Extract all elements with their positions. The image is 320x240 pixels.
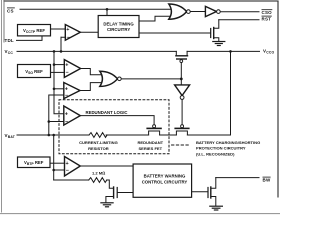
transistor Q6 gate bar [207, 188, 209, 198]
transistor Q6 channel bar [210, 187, 212, 198]
op-amp U4 comparator [64, 83, 80, 99]
dashed box redundant logic [59, 100, 169, 154]
transistor Q1 source stub to ground [214, 38, 219, 42]
wire G2 output to node N1 [121, 78, 181, 80]
wire U7 output to battery warning box [80, 165, 133, 167]
wire VBAT line [17, 134, 89, 136]
svg-text:−: − [67, 35, 70, 41]
wire VBAT feed vertical VB to U4 minus and U5 minus [49, 95, 64, 135]
svg-text:DELAY TIMING: DELAY TIMING [103, 22, 134, 27]
wire BW output line [216, 177, 259, 179]
svg-text:+: + [65, 112, 68, 118]
wire between Q3 and Q4 [160, 134, 177, 136]
svg-text:RESISTOR: RESISTOR [88, 146, 109, 151]
wire VBAT line after R1 [106, 134, 149, 136]
svg-text:SERIES FET: SERIES FET [138, 146, 162, 151]
transistor Q5 gate bar [116, 188, 118, 198]
transistor Q3 gate bar [147, 127, 161, 129]
ground G1 symbol [213, 41, 225, 43]
wire U4 output to NOR G2 lower input [80, 83, 102, 91]
transistor Q3 gate bubble [153, 125, 156, 128]
wire battery warning box to Q6 gate [192, 191, 208, 193]
node dot VBAT/VC [52, 134, 55, 137]
gate G2 NOR [100, 71, 118, 86]
svg-text:BATTERY WARNING: BATTERY WARNING [144, 174, 186, 179]
node dot VCC/U1minus [60, 50, 63, 53]
wire VC stub to U7 minus [54, 169, 65, 171]
wire inverter U6 output to Q4 gate [181, 100, 183, 125]
svg-text:+: + [66, 161, 69, 167]
pin label CS [7, 8, 15, 13]
wire VSO REF to U3 minus [51, 71, 65, 73]
wire delay box to NOR G1 lower input [139, 16, 171, 21]
node CS junction to delay box [106, 9, 108, 15]
wire VA stub to U3 plus [54, 64, 64, 66]
svg-text:−: − [66, 70, 69, 76]
svg-text:BW: BW [263, 177, 271, 182]
wire Q5 gate to battery warning box [118, 192, 134, 194]
op-amp U5 comparator [64, 106, 81, 125]
svg-text:(U.L. RECOGNIZED): (U.L. RECOGNIZED) [196, 151, 235, 156]
ground G2 symbol [101, 202, 113, 204]
wire Q2 gate down to node N1 [180, 63, 182, 79]
svg-text:CS: CS [7, 8, 14, 13]
node dot VC/U7minus [52, 169, 55, 172]
node dot VBAT/VB [48, 134, 51, 137]
transistor Q2 channel bar [176, 55, 188, 57]
wire CS input line [20, 8, 171, 10]
wire R2 to Q5 top stub [107, 180, 113, 188]
node N1 junction dot [180, 78, 183, 81]
pin label BW [263, 177, 271, 182]
wire U1 minus from VCC rail [61, 37, 65, 51]
resistor R2 1.2 Mohm zigzag [89, 178, 107, 183]
op-amp U3 comparator [64, 60, 80, 78]
border frame bottom [0, 213, 280, 215]
border frame top [4, 0, 278, 2]
transistor Q1 (RST pulldown) gate bar [210, 29, 212, 38]
pin label RST [262, 16, 272, 21]
svg-text:REDUNDANT: REDUNDANT [137, 140, 163, 145]
node dot CS/delay [106, 8, 109, 11]
node dot VA/U4plus [53, 88, 56, 91]
box VSO REF [18, 65, 51, 78]
pin label CSO [262, 10, 273, 15]
op-amp U1 comparator [65, 25, 80, 41]
transistor Q6 drain stub to BW line [211, 178, 216, 189]
transistor Q4 protection FET hump [176, 131, 187, 135]
box VBTP REF [18, 157, 51, 168]
resistor R1 current-limiting zigzag [89, 133, 107, 138]
svg-text:CURRENT-LIMITING: CURRENT-LIMITING [79, 140, 118, 145]
ground G3 symbol [210, 205, 223, 207]
wire N1 down to inverter U6 [180, 79, 182, 85]
transistor Q2 gate bubble [180, 60, 183, 63]
wire VCC to comparator feeds vertical VA [54, 51, 64, 113]
box VCCTP REF [18, 25, 51, 36]
wire U1 output to delay box [80, 31, 98, 33]
node dot VA/U3plus [53, 63, 56, 66]
transistor Q6 source stub to ground [211, 197, 216, 206]
svg-text:PROTECTION CIRCUITRY: PROTECTION CIRCUITRY [196, 146, 246, 151]
wire VBAT line to VCCO riser [187, 51, 230, 135]
inverter U2 [205, 6, 216, 16]
transistor Q3 redundant series FET hump [149, 131, 160, 135]
svg-text:−: − [66, 168, 69, 174]
svg-text:REDUNDANT LOGIC: REDUNDANT LOGIC [85, 110, 127, 115]
node dot VCC/VCCO riser [229, 50, 232, 53]
node dot VB/U5minus [48, 120, 51, 123]
wire Q5 source stub to ground [106, 197, 113, 203]
transistor Q2 pass FET drain/source drops [176, 51, 187, 55]
transistor Q2 gate bar [177, 58, 187, 60]
wire VBAT to comp5/resistor vertical VC [53, 135, 55, 180]
border frame right [277, 1, 279, 197]
svg-text:−: − [65, 93, 68, 99]
wire U2 output to CSO pad [220, 11, 259, 13]
wire U5 output to Q3 gate [80, 116, 154, 125]
svg-text:1.2 MΩ: 1.2 MΩ [92, 171, 105, 176]
svg-text:CIRCUITRY: CIRCUITRY [107, 27, 130, 32]
box battery warning control circuitry [133, 164, 192, 197]
transistor Q1 drain stub to RST line [214, 20, 219, 28]
wire RST output line [219, 19, 259, 21]
wire G1 output to inverter U2 [190, 11, 205, 13]
svg-text:+: + [65, 62, 68, 68]
svg-text:BATTERY CHARGING/SHORTING: BATTERY CHARGING/SHORTING [196, 140, 260, 145]
border frame left [1, 0, 3, 212]
wire delay box to Q1 gate [139, 32, 210, 34]
svg-text:−: − [65, 119, 68, 125]
wire U1 minus rail riser [60, 37, 62, 51]
transistor Q4 gate bar [175, 127, 189, 129]
wire VCCTP REF to comparator U1 + [51, 28, 66, 30]
dashed connector to protection note [172, 144, 190, 146]
wire VBTP REF to U7 plus [50, 162, 65, 164]
inverter U6 body [175, 85, 190, 96]
inverter U6 bubble [180, 96, 184, 100]
wire VA stub to U4 plus [54, 88, 64, 90]
gate G1 NOR [169, 4, 187, 19]
wire VB stub to U5 minus [49, 121, 64, 123]
transistor Q5 channel bar [113, 187, 115, 198]
transistor Q1 channel bar [213, 28, 215, 39]
wire VCC rail right to VCCO pad [187, 50, 259, 52]
node dot VCC/VA [53, 50, 56, 53]
wire VCC rail left [17, 50, 176, 52]
svg-text:TDL: TDL [5, 38, 14, 43]
wire TDL lead [17, 36, 43, 41]
svg-text:+: + [66, 27, 69, 33]
wire VC to 1.2M resistor [54, 179, 89, 181]
svg-text:CONTROL CIRCUITRY: CONTROL CIRCUITRY [142, 179, 188, 184]
op-amp U7 comparator [65, 157, 81, 177]
svg-text:RST: RST [262, 16, 272, 21]
svg-text:+: + [65, 87, 68, 93]
transistor Q4 gate bubble [181, 125, 184, 128]
box delay timing circuitry [98, 16, 139, 38]
svg-text:CSO: CSO [262, 10, 273, 15]
wire U3 output to NOR G2 upper input [81, 69, 102, 75]
